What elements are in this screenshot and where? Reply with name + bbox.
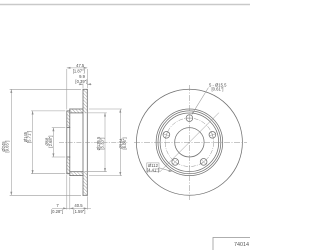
bolt hole upper-right [209,131,216,138]
svg-text:[0.39"]: [0.39"] [75,79,87,84]
mounting face [66,111,68,174]
svg-text:[9.65"]: [9.65"] [5,141,10,153]
dim D68: extension lines [52,127,66,129]
bolt circle D112 dash-dot [165,118,213,166]
arrows D68 [52,128,54,132]
arrows D145 [32,111,34,115]
disc OD bottom edge [83,194,87,196]
hat wall outer bottom [70,175,83,177]
flange OD bottom edge [67,173,70,175]
bore bottom edge [67,156,70,158]
arrows 7 outside [63,207,67,209]
disc outboard face [86,89,88,195]
arrows D135.5 [104,113,106,117]
svg-text:[5.71"]: [5.71"] [27,131,32,143]
hole center mark lower-left [173,159,178,164]
hatch: flange bottom [67,157,70,174]
horizontal centerline [134,141,247,143]
disc OD top edge [83,88,87,90]
svg-text:[2.68"]: [2.68"] [48,136,53,148]
svg-text:[0.28"]: [0.28"] [51,209,63,214]
hatch: disc band top [83,89,87,113]
arrows 47.5 [67,67,71,69]
svg-text:[5.33"]: [5.33"] [100,138,105,150]
hole center mark upper-right [209,132,215,138]
arrows 9.9 outside [79,83,83,85]
hole center mark upper-left [163,132,169,138]
dim 9.9: dimension line with outside tails [79,83,83,85]
dim D135.5: dimension line [104,113,106,172]
flange OD top edge [67,110,70,112]
svg-text:40.5: 40.5 [74,203,83,208]
dim 47.5: dimension line [67,67,88,69]
dim 9.9: extension line [82,83,84,88]
svg-text:[1.59"]: [1.59"] [73,209,85,214]
arrow 40.5 right [84,207,88,209]
vertical centerline [188,85,190,200]
sheet top border [0,4,250,6]
bolt holes 5x D15.5 [163,115,216,165]
front view centerlines [134,85,247,200]
flange inner face [69,109,71,176]
bolt hole upper-left [163,131,170,138]
hatch: hat wall bottom [70,172,83,176]
svg-text:[1.87"]: [1.87"] [73,69,85,74]
dim OD245: dimension line [10,89,12,195]
outer circle D245 [136,89,242,195]
circle D135.5 [160,113,219,172]
svg-text:47.5: 47.5 [76,63,85,68]
leader 5-D15.5 [192,88,208,114]
hat wall outer top [70,108,83,110]
dim D145: extension lines [31,110,65,112]
dim 7 / 40.5: dimension line [52,207,91,209]
hole center mark top [186,117,192,119]
circle D154 [156,109,223,176]
dim D154: dimension line [119,109,121,176]
hatch: disc band bottom [83,172,87,196]
hole center mark lower-right [201,159,206,164]
bolt hole lower-left [172,159,179,166]
circle D145 [158,111,221,174]
dimension arrows [10,67,121,210]
svg-text:[0.61"]: [0.61"] [212,87,224,92]
svg-text:74014: 74014 [234,242,249,248]
hat wall inner bottom [70,171,83,173]
dim OD245: extension lines [10,88,81,90]
section outline [67,89,88,195]
hat wall inner top [70,112,83,114]
dim D154: extension lines [89,108,122,110]
dim 47.5: extension lines [66,69,68,110]
dim D145: dimension line [32,111,34,174]
arrows D154 [119,109,121,113]
bolt hole lower-right [200,159,207,166]
bolt hole top [186,115,193,122]
svg-text:[6.06"]: [6.06"] [122,138,127,150]
hatch: hat wall top [70,109,83,113]
section axis centerline [59,141,128,143]
disc inboard face [82,89,84,195]
bore top edge [67,127,70,129]
svg-text:7: 7 [56,203,59,208]
45 degree section line [160,113,219,172]
boxed label D112 [147,163,159,172]
dim 7 / 40.5: extension lines [66,175,68,210]
title block [213,238,258,250]
bore circle D68 [175,128,204,157]
dim D135.5: extension lines [85,112,107,114]
hatch: flange top [67,111,70,128]
dim D68: dimension line [52,128,54,157]
arrows OD245 [10,89,12,93]
leader D112 [159,168,171,171]
svg-text:[4.41"]: [4.41"] [147,167,159,172]
